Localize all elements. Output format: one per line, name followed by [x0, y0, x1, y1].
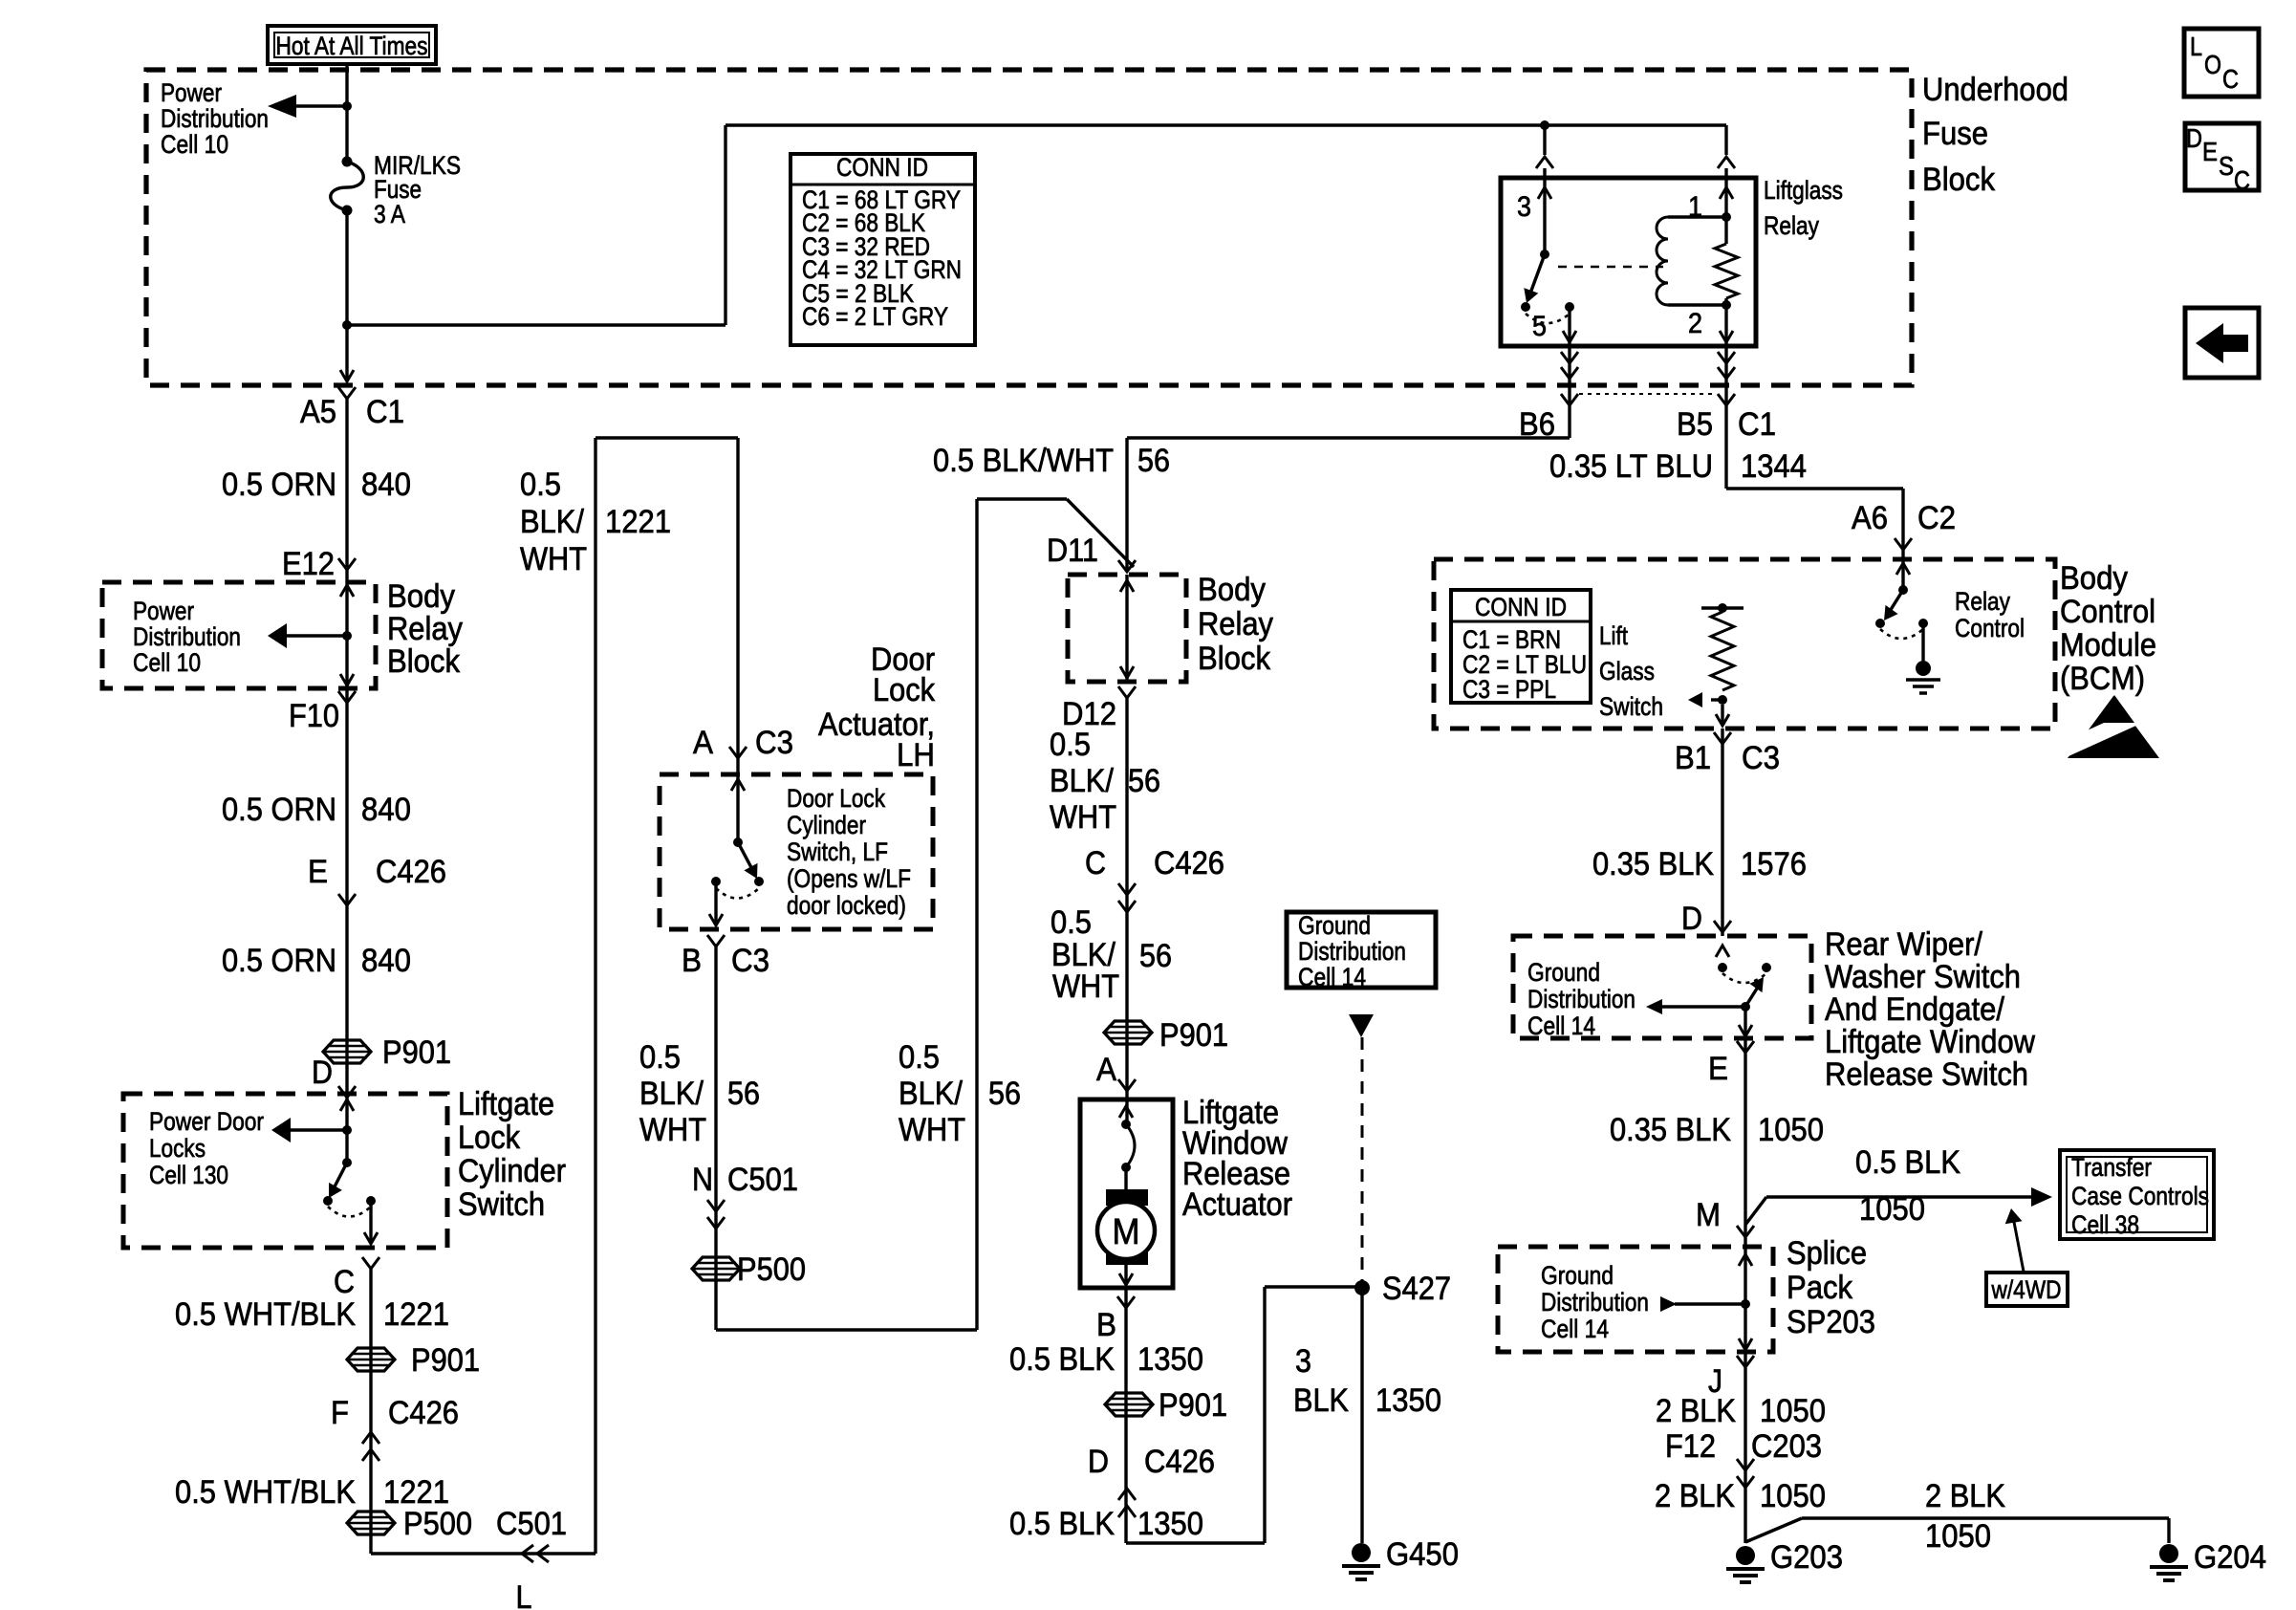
svg-text:Liftglass: Liftglass — [1764, 176, 1843, 205]
svg-text:1050: 1050 — [1859, 1191, 1925, 1228]
svg-text:0.5 WHT/BLK: 0.5 WHT/BLK — [175, 1474, 356, 1511]
svg-text:F12: F12 — [1665, 1428, 1716, 1465]
svg-text:P901: P901 — [411, 1342, 480, 1379]
svg-text:0.5 ORN: 0.5 ORN — [222, 792, 336, 828]
svg-text:1050: 1050 — [1758, 1112, 1824, 1148]
svg-text:C3: C3 — [1742, 740, 1780, 776]
svg-text:0.35 BLK: 0.35 BLK — [1592, 846, 1714, 882]
svg-text:C203: C203 — [1751, 1428, 1822, 1465]
svg-text:G204: G204 — [2194, 1539, 2266, 1576]
svg-text:CONN ID: CONN ID — [836, 153, 928, 182]
svg-text:Liftgate: Liftgate — [458, 1086, 554, 1122]
svg-text:840: 840 — [361, 467, 411, 503]
svg-text:Body: Body — [387, 578, 455, 615]
svg-text:Cylinder: Cylinder — [458, 1153, 566, 1189]
svg-text:C501: C501 — [727, 1162, 798, 1198]
svg-text:SP203: SP203 — [1787, 1304, 1875, 1340]
svg-text:L: L — [2190, 32, 2202, 61]
svg-text:P500: P500 — [403, 1506, 472, 1542]
svg-text:0.5 ORN: 0.5 ORN — [222, 467, 336, 503]
svg-text:Block: Block — [1198, 641, 1271, 677]
svg-text:WHT: WHT — [899, 1112, 965, 1148]
svg-text:C1: C1 — [1738, 406, 1776, 443]
svg-text:Lock: Lock — [873, 672, 936, 708]
svg-text:56: 56 — [727, 1076, 760, 1112]
svg-text:3 A: 3 A — [374, 200, 405, 228]
svg-text:WHT: WHT — [520, 541, 587, 577]
svg-text:Switch, LF: Switch, LF — [787, 838, 888, 866]
svg-text:BLK: BLK — [1293, 1382, 1349, 1419]
svg-text:C3: C3 — [731, 943, 769, 979]
svg-text:0.5: 0.5 — [1051, 904, 1092, 941]
svg-text:C426: C426 — [1154, 845, 1224, 881]
svg-text:Distribution: Distribution — [1527, 985, 1635, 1013]
svg-text:Power Door: Power Door — [149, 1107, 264, 1136]
svg-text:Lock: Lock — [458, 1120, 521, 1156]
svg-text:O: O — [2204, 50, 2221, 79]
svg-text:P500: P500 — [737, 1251, 806, 1288]
svg-text:3: 3 — [1295, 1343, 1311, 1380]
svg-text:0.5: 0.5 — [639, 1039, 681, 1076]
svg-text:S: S — [2219, 151, 2234, 181]
svg-text:F: F — [331, 1395, 349, 1431]
svg-text:D: D — [312, 1055, 333, 1091]
svg-text:B1: B1 — [1675, 740, 1711, 776]
svg-text:Cell 130: Cell 130 — [149, 1161, 228, 1189]
svg-text:3: 3 — [1517, 191, 1531, 223]
svg-text:0.35 BLK: 0.35 BLK — [1610, 1112, 1731, 1148]
svg-text:Door Lock: Door Lock — [787, 784, 885, 813]
svg-text:Relay: Relay — [1764, 211, 1819, 240]
svg-text:Splice: Splice — [1787, 1235, 1867, 1272]
svg-text:Ground: Ground — [1298, 911, 1371, 940]
svg-text:And Endgate/: And Endgate/ — [1825, 991, 2005, 1028]
svg-text:A: A — [1096, 1052, 1116, 1088]
svg-text:Hot At All Times: Hot At All Times — [276, 32, 428, 60]
svg-text:Cell 14: Cell 14 — [1541, 1315, 1609, 1343]
svg-text:Power: Power — [161, 78, 222, 107]
svg-text:Relay: Relay — [1955, 587, 2010, 616]
svg-text:A5: A5 — [300, 394, 336, 430]
svg-text:Distribution: Distribution — [1298, 937, 1406, 966]
svg-text:C: C — [2222, 64, 2239, 94]
svg-text:C1: C1 — [366, 394, 404, 430]
svg-text:A: A — [693, 725, 713, 761]
svg-text:B6: B6 — [1519, 406, 1555, 443]
svg-text:2: 2 — [1688, 308, 1702, 339]
svg-text:D: D — [1681, 901, 1702, 937]
svg-text:A6: A6 — [1852, 500, 1888, 536]
svg-text:1: 1 — [1688, 191, 1702, 223]
svg-text:C: C — [1085, 845, 1106, 881]
svg-text:Ground: Ground — [1527, 958, 1600, 987]
svg-text:Fuse: Fuse — [1922, 116, 1988, 152]
svg-text:C501: C501 — [496, 1506, 567, 1542]
svg-text:Block: Block — [387, 643, 461, 680]
svg-text:840: 840 — [361, 792, 411, 828]
svg-text:E: E — [2202, 137, 2218, 166]
svg-text:Cell 38: Cell 38 — [2071, 1210, 2139, 1239]
svg-text:Transfer: Transfer — [2071, 1153, 2152, 1182]
svg-text:0.5 WHT/BLK: 0.5 WHT/BLK — [175, 1296, 356, 1333]
svg-text:0.5 BLK: 0.5 BLK — [1855, 1144, 1960, 1181]
svg-text:E: E — [1708, 1051, 1728, 1087]
svg-text:G203: G203 — [1770, 1539, 1843, 1576]
svg-text:Distribution: Distribution — [1541, 1288, 1649, 1316]
svg-text:0.5 BLK/WHT: 0.5 BLK/WHT — [933, 443, 1114, 479]
svg-text:Ground: Ground — [1541, 1261, 1614, 1290]
svg-text:BLK/: BLK/ — [639, 1076, 704, 1112]
svg-text:WHT: WHT — [639, 1112, 706, 1148]
svg-text:Relay: Relay — [1198, 606, 1273, 642]
svg-text:1050: 1050 — [1760, 1478, 1826, 1514]
svg-text:Glass: Glass — [1599, 657, 1655, 685]
svg-text:P901: P901 — [1159, 1387, 1227, 1424]
svg-text:56: 56 — [1137, 443, 1170, 479]
svg-text:5: 5 — [1532, 311, 1547, 342]
svg-text:0.5: 0.5 — [899, 1039, 940, 1076]
svg-text:840: 840 — [361, 943, 411, 979]
svg-text:1576: 1576 — [1741, 846, 1807, 882]
svg-text:P901: P901 — [1159, 1017, 1228, 1054]
svg-text:0.35 LT BLU: 0.35 LT BLU — [1549, 448, 1713, 485]
svg-text:E: E — [308, 854, 328, 890]
svg-text:BLK/: BLK/ — [520, 504, 584, 540]
svg-text:Pack: Pack — [1787, 1270, 1853, 1306]
svg-text:2 BLK: 2 BLK — [1925, 1478, 2005, 1514]
svg-text:0.5 BLK: 0.5 BLK — [1009, 1506, 1115, 1542]
svg-text:Cylinder: Cylinder — [787, 811, 866, 839]
svg-text:56: 56 — [1128, 763, 1160, 799]
svg-text:Control: Control — [2060, 594, 2155, 630]
svg-text:B: B — [682, 943, 702, 979]
svg-text:C: C — [334, 1264, 355, 1300]
svg-text:Switch: Switch — [458, 1186, 545, 1223]
svg-text:Locks: Locks — [149, 1134, 206, 1163]
svg-text:Distribution: Distribution — [161, 104, 269, 133]
svg-text:Lift: Lift — [1599, 621, 1628, 650]
svg-text:Actuator: Actuator — [1182, 1186, 1292, 1223]
svg-text:1350: 1350 — [1137, 1506, 1203, 1542]
svg-text:C2: C2 — [1917, 500, 1956, 536]
svg-text:F10: F10 — [289, 698, 339, 734]
svg-text:G450: G450 — [1386, 1536, 1459, 1573]
svg-text:Body: Body — [1198, 572, 1266, 608]
svg-text:N: N — [692, 1162, 713, 1198]
svg-text:WHT: WHT — [1052, 968, 1119, 1005]
svg-text:2 BLK: 2 BLK — [1655, 1478, 1735, 1514]
svg-text:WHT: WHT — [1050, 799, 1116, 836]
svg-text:BLK/: BLK/ — [1050, 763, 1114, 799]
svg-text:P901: P901 — [382, 1034, 451, 1071]
svg-text:Control: Control — [1955, 614, 2025, 642]
svg-text:door locked): door locked) — [787, 891, 906, 920]
svg-text:LH: LH — [897, 737, 935, 773]
svg-text:Release Switch: Release Switch — [1825, 1056, 2028, 1093]
svg-text:Relay: Relay — [387, 611, 463, 647]
svg-text:C6 = 2 LT GRY: C6 = 2 LT GRY — [802, 302, 948, 331]
svg-text:C426: C426 — [388, 1395, 459, 1431]
svg-text:1344: 1344 — [1741, 448, 1807, 485]
svg-text:L: L — [516, 1579, 532, 1610]
svg-text:Cell 14: Cell 14 — [1298, 963, 1366, 991]
svg-text:Block: Block — [1922, 162, 1996, 198]
svg-text:D: D — [1088, 1444, 1109, 1480]
svg-text:0.5: 0.5 — [1050, 727, 1091, 763]
svg-text:Distribution: Distribution — [133, 622, 241, 651]
svg-text:BLK/: BLK/ — [899, 1076, 963, 1112]
svg-text:D: D — [2186, 123, 2202, 153]
svg-text:w/4WD: w/4WD — [1991, 1275, 2062, 1304]
svg-text:M: M — [1696, 1197, 1721, 1233]
svg-text:Switch: Switch — [1599, 692, 1663, 721]
svg-text:Cell 10: Cell 10 — [133, 648, 201, 677]
svg-text:CONN ID: CONN ID — [1475, 593, 1567, 621]
svg-text:1221: 1221 — [383, 1296, 449, 1333]
svg-text:Cell 14: Cell 14 — [1527, 1012, 1595, 1040]
svg-text:B: B — [1096, 1307, 1116, 1343]
svg-text:56: 56 — [1139, 938, 1172, 974]
svg-text:1350: 1350 — [1137, 1341, 1203, 1378]
svg-text:Case Controls: Case Controls — [2071, 1182, 2209, 1210]
svg-text:B5: B5 — [1677, 406, 1713, 443]
svg-text:2 BLK: 2 BLK — [1656, 1393, 1736, 1429]
svg-text:(BCM): (BCM) — [2060, 661, 2145, 697]
svg-text:(Opens w/LF: (Opens w/LF — [787, 864, 911, 893]
svg-text:Washer Switch: Washer Switch — [1825, 959, 2021, 995]
svg-text:Liftgate Window: Liftgate Window — [1825, 1024, 2035, 1060]
svg-text:C: C — [2234, 165, 2250, 195]
svg-text:1050: 1050 — [1925, 1518, 1991, 1555]
svg-text:C426: C426 — [1144, 1444, 1215, 1480]
svg-text:Body: Body — [2060, 560, 2128, 597]
svg-text:Rear Wiper/: Rear Wiper/ — [1825, 926, 1983, 963]
svg-text:0.5 BLK: 0.5 BLK — [1009, 1341, 1115, 1378]
svg-text:0.5: 0.5 — [520, 467, 561, 503]
svg-text:Module: Module — [2060, 627, 2156, 664]
svg-text:0.5 ORN: 0.5 ORN — [222, 943, 336, 979]
svg-text:D11: D11 — [1047, 533, 1098, 569]
svg-text:E12: E12 — [282, 546, 335, 582]
svg-text:1350: 1350 — [1375, 1382, 1441, 1419]
svg-text:1050: 1050 — [1760, 1393, 1826, 1429]
svg-text:M: M — [1113, 1212, 1140, 1252]
svg-text:C3 = PPL: C3 = PPL — [1462, 675, 1556, 704]
svg-text:Underhood: Underhood — [1922, 72, 2069, 108]
svg-text:Power: Power — [133, 597, 194, 625]
svg-text:C426: C426 — [376, 854, 446, 890]
svg-text:1221: 1221 — [605, 504, 671, 540]
svg-text:Cell 10: Cell 10 — [161, 130, 228, 159]
svg-text:C3: C3 — [755, 725, 793, 761]
svg-text:56: 56 — [988, 1076, 1021, 1112]
svg-text:S427: S427 — [1382, 1271, 1451, 1307]
